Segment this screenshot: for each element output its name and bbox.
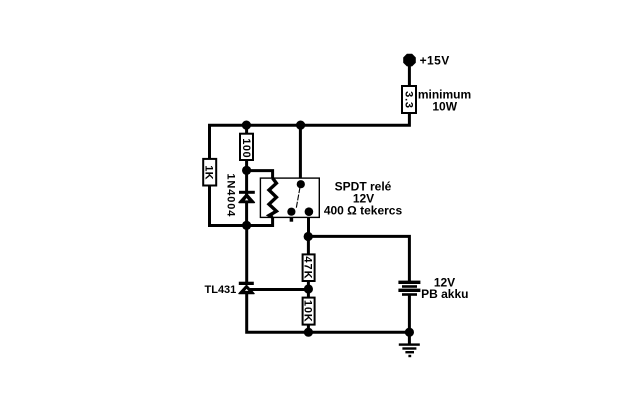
svg-text:1N4004: 1N4004: [225, 173, 237, 217]
svg-text:400 Ω tekercs: 400 Ω tekercs: [324, 204, 403, 218]
svg-text:10W: 10W: [432, 100, 457, 114]
svg-text:10K: 10K: [301, 300, 313, 323]
svg-text:3.3: 3.3: [403, 91, 415, 109]
svg-text:100: 100: [240, 138, 252, 158]
svg-text:PB akku: PB akku: [421, 287, 468, 301]
svg-text:1K: 1K: [203, 165, 215, 179]
svg-text:TL431: TL431: [205, 284, 237, 296]
svg-text:47K: 47K: [301, 256, 313, 279]
svg-text:+15V: +15V: [420, 54, 450, 68]
